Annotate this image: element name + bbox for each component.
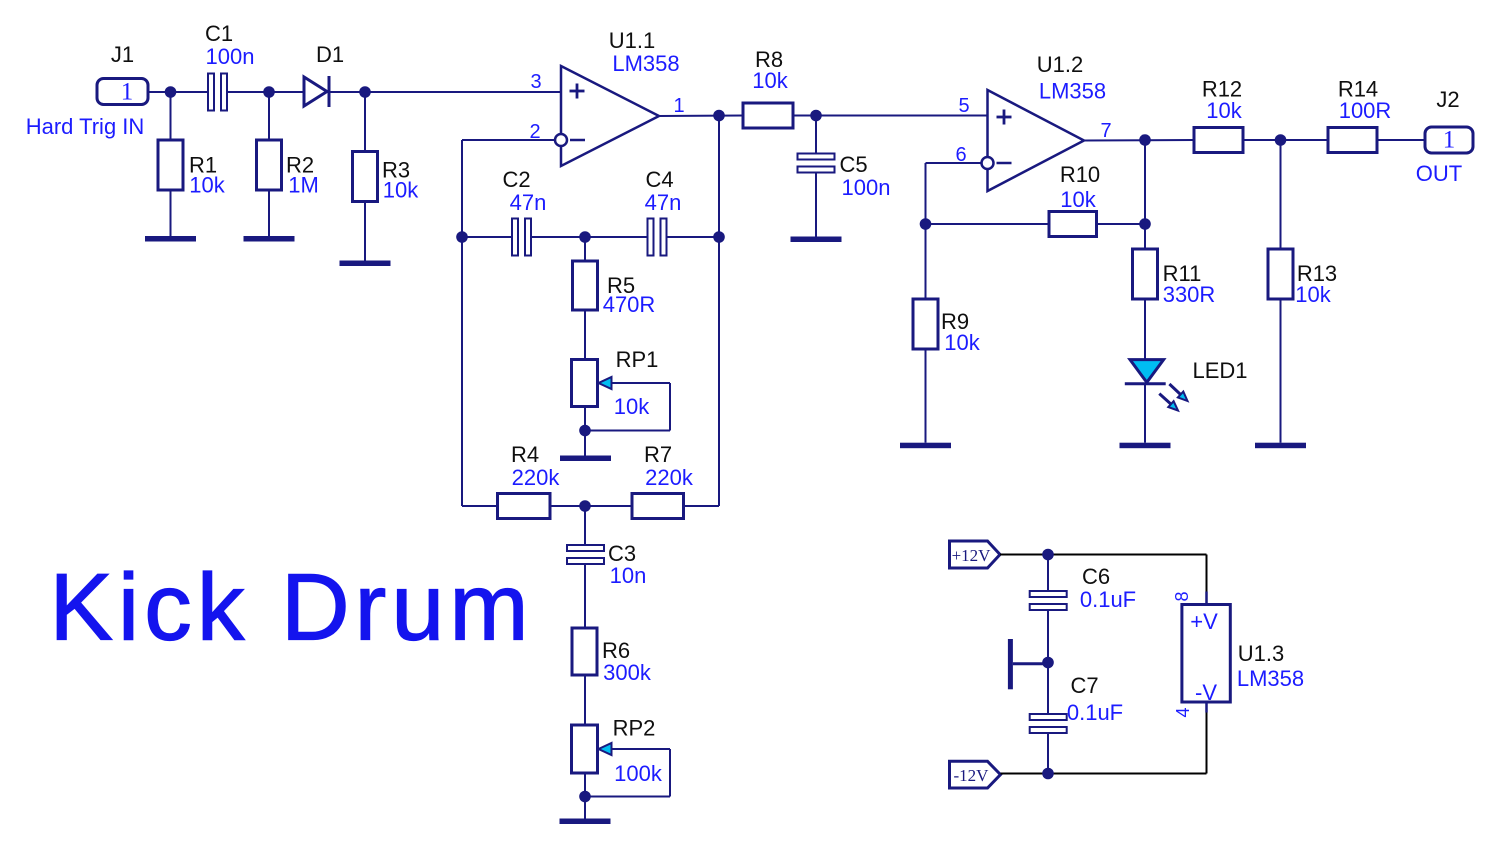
svg-text:10n: 10n	[610, 563, 647, 588]
svg-text:J2: J2	[1436, 87, 1459, 112]
svg-text:J1: J1	[111, 42, 134, 67]
svg-text:3: 3	[530, 71, 541, 93]
svg-text:R10: R10	[1060, 162, 1100, 187]
svg-text:C5: C5	[839, 152, 867, 177]
svg-text:R4: R4	[511, 442, 539, 467]
svg-text:-V: -V	[1195, 680, 1217, 705]
svg-text:LED1: LED1	[1192, 358, 1247, 383]
svg-text:OUT: OUT	[1416, 161, 1462, 186]
svg-text:8: 8	[1172, 591, 1192, 601]
svg-text:4: 4	[1173, 707, 1193, 717]
svg-text:0.1uF: 0.1uF	[1067, 700, 1123, 725]
svg-text:100n: 100n	[206, 44, 255, 69]
svg-text:1M: 1M	[288, 173, 319, 198]
svg-text:470R: 470R	[603, 292, 656, 317]
svg-text:C6: C6	[1082, 564, 1110, 589]
svg-text:10k: 10k	[383, 178, 419, 203]
svg-text:0.1uF: 0.1uF	[1080, 587, 1136, 612]
svg-text:U1.1: U1.1	[609, 28, 655, 53]
svg-text:47n: 47n	[645, 190, 682, 215]
svg-text:10k: 10k	[1206, 98, 1242, 123]
svg-text:300k: 300k	[603, 660, 652, 685]
svg-text:RP1: RP1	[616, 347, 659, 372]
svg-text:220k: 220k	[645, 465, 694, 490]
svg-text:100n: 100n	[842, 175, 891, 200]
svg-text:C4: C4	[645, 167, 673, 192]
svg-text:+12V: +12V	[952, 546, 992, 565]
svg-text:-12V: -12V	[954, 766, 990, 785]
svg-text:10k: 10k	[752, 68, 788, 93]
svg-text:1: 1	[121, 79, 134, 106]
svg-text:Kick Drum: Kick Drum	[50, 555, 529, 661]
svg-text:7: 7	[1100, 120, 1111, 142]
svg-text:1: 1	[1443, 127, 1456, 154]
svg-text:Hard Trig IN: Hard Trig IN	[26, 114, 145, 139]
svg-text:10k: 10k	[1060, 187, 1096, 212]
svg-text:U1.2: U1.2	[1037, 52, 1083, 77]
svg-text:10k: 10k	[614, 394, 650, 419]
svg-text:D1: D1	[316, 42, 344, 67]
svg-text:C2: C2	[502, 167, 530, 192]
svg-text:330R: 330R	[1163, 282, 1216, 307]
svg-text:LM358: LM358	[1237, 666, 1304, 691]
svg-text:U1.3: U1.3	[1238, 641, 1284, 666]
svg-text:1: 1	[673, 95, 684, 117]
svg-text:47n: 47n	[510, 190, 547, 215]
svg-text:100R: 100R	[1339, 98, 1392, 123]
svg-text:LM358: LM358	[1039, 79, 1106, 104]
svg-text:+V: +V	[1190, 609, 1218, 634]
svg-text:C7: C7	[1070, 673, 1098, 698]
svg-text:10k: 10k	[944, 330, 980, 355]
svg-text:LM358: LM358	[612, 51, 679, 76]
svg-text:10k: 10k	[1295, 282, 1331, 307]
svg-text:C1: C1	[205, 21, 233, 46]
svg-text:100k: 100k	[614, 761, 663, 786]
svg-text:R7: R7	[644, 442, 672, 467]
svg-text:220k: 220k	[512, 465, 561, 490]
svg-text:RP2: RP2	[613, 716, 656, 741]
svg-text:10k: 10k	[189, 173, 225, 198]
svg-text:5: 5	[958, 95, 969, 117]
